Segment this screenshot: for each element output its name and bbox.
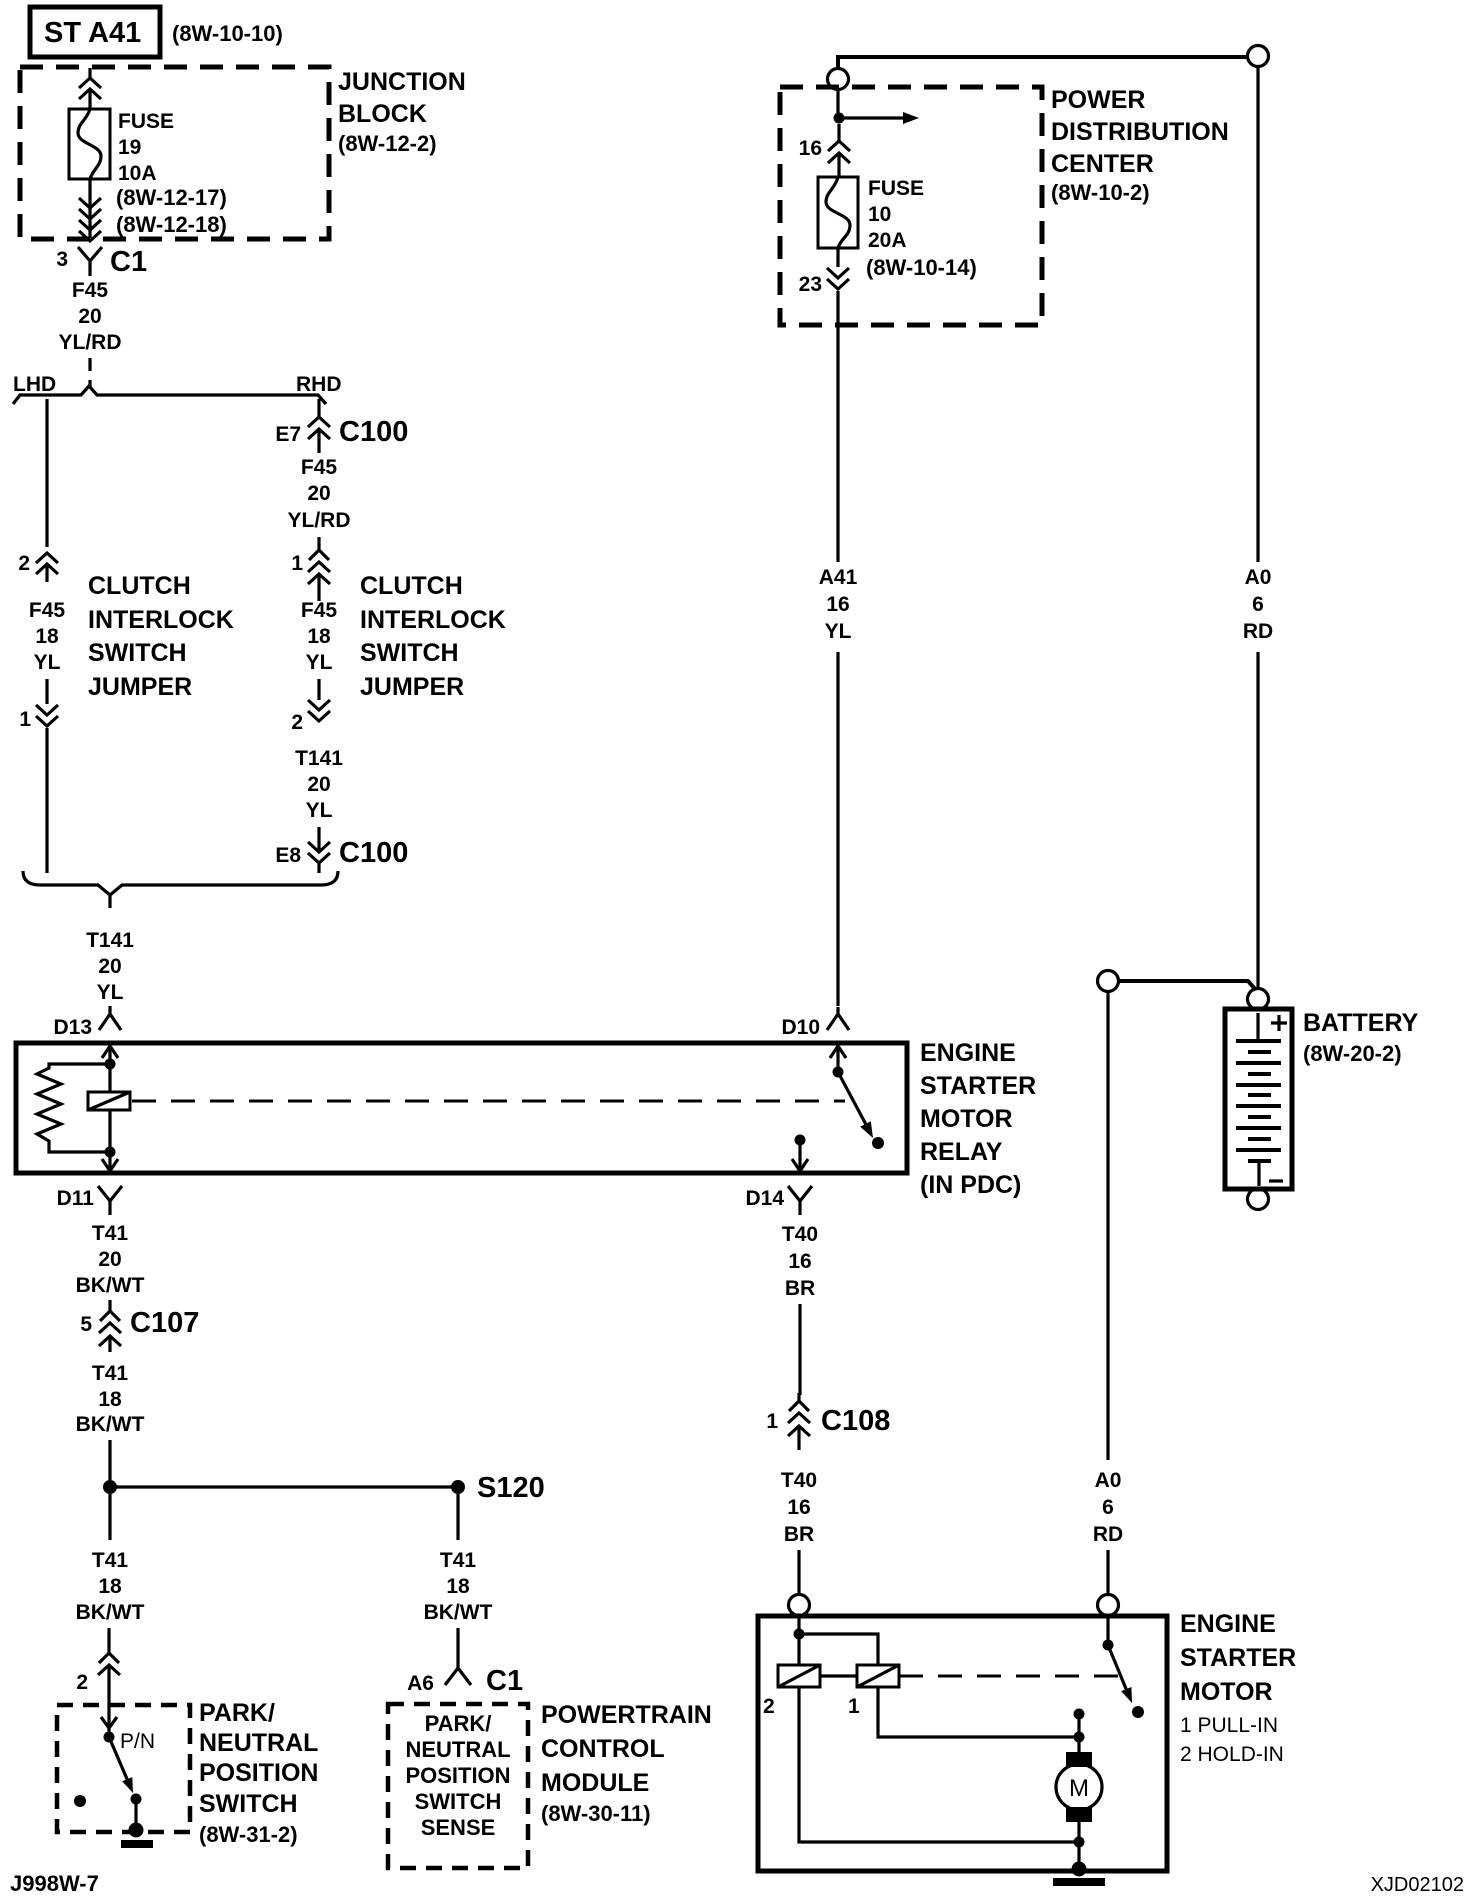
wire: LHD branch lower <box>45 728 48 873</box>
svg-text:POSITION: POSITION <box>199 1759 318 1787</box>
wire A41 (PDC to relay) <box>836 332 839 1006</box>
svg-text:(8W-10-14): (8W-10-14) <box>866 255 977 280</box>
coil 1 output wire <box>878 1687 1079 1737</box>
svg-text:YL: YL <box>97 981 124 1004</box>
relay pin D14 internal wire <box>792 1135 808 1172</box>
solenoid actuation dashed link <box>899 1675 1122 1678</box>
wire A0 (battery feed right) <box>1256 67 1259 988</box>
coil 2 return wire <box>799 1687 1079 1842</box>
starter hold-in feed wires <box>794 1616 879 1665</box>
svg-text:D10: D10 <box>781 1016 820 1039</box>
connector C100 pin E7 <box>275 407 408 453</box>
svg-text:T41: T41 <box>92 1362 129 1385</box>
connector pin 2 (PNP switch) <box>76 1628 120 1732</box>
PDC label <box>1051 86 1229 205</box>
starter ground <box>1053 1862 1105 1887</box>
svg-text:(8W-10-10): (8W-10-10) <box>172 21 283 46</box>
svg-text:2: 2 <box>18 552 30 575</box>
svg-text:RELAY: RELAY <box>920 1138 1003 1166</box>
svg-text:C108: C108 <box>821 1405 890 1437</box>
svg-text:T40: T40 <box>781 1469 817 1492</box>
svg-text:PARK/: PARK/ <box>425 1711 492 1736</box>
solenoid coil 2 (hold-in) <box>763 1665 820 1718</box>
clutch interlock switch jumper label (RHD) <box>360 572 506 701</box>
svg-text:SWITCH: SWITCH <box>199 1790 298 1818</box>
battery positive terminal circle (top) <box>1248 46 1269 67</box>
motor feed junctions <box>1074 1709 1085 1743</box>
svg-text:CENTER: CENTER <box>1051 150 1154 178</box>
svg-text:18: 18 <box>446 1575 470 1598</box>
svg-text:S120: S120 <box>477 1472 545 1504</box>
svg-text:16: 16 <box>799 137 822 160</box>
svg-text:NEUTRAL: NEUTRAL <box>199 1729 318 1757</box>
svg-text:SWITCH: SWITCH <box>415 1789 502 1814</box>
wire: top feed to battery <box>838 57 1247 68</box>
wire: splice to PNP switch <box>108 1494 111 1540</box>
svg-text:RHD: RHD <box>296 373 342 396</box>
svg-text:FUSE: FUSE <box>118 110 174 133</box>
wire label T40 16 BR (lower) <box>781 1469 817 1546</box>
svg-text:POWERTRAIN: POWERTRAIN <box>541 1701 712 1729</box>
svg-text:20: 20 <box>78 305 101 328</box>
svg-text:MOTOR: MOTOR <box>920 1105 1013 1133</box>
svg-text:E7: E7 <box>275 423 301 446</box>
option split LHD/RHD <box>13 373 342 404</box>
svg-text:BK/WT: BK/WT <box>76 1601 145 1624</box>
svg-text:C100: C100 <box>339 416 408 448</box>
svg-text:E8: E8 <box>275 844 301 867</box>
wire: RHD mid <box>317 679 320 700</box>
wire: splice to PCM <box>456 1494 459 1540</box>
svg-text:T141: T141 <box>86 929 134 952</box>
svg-text:C1: C1 <box>110 246 147 278</box>
svg-text:18: 18 <box>35 625 59 648</box>
battery negative post circle <box>1248 1189 1269 1210</box>
wire label A0 6 RD <box>1243 566 1273 643</box>
svg-text:STARTER: STARTER <box>1180 1644 1296 1672</box>
battery <box>1225 1009 1292 1189</box>
svg-text:1 PULL-IN: 1 PULL-IN <box>1180 1714 1278 1737</box>
svg-text:BLOCK: BLOCK <box>338 100 427 128</box>
svg-text:BK/WT: BK/WT <box>76 1413 145 1436</box>
svg-text:J998W-7: J998W-7 <box>10 1871 99 1896</box>
connector pin 1 (RHD jumper) <box>291 537 330 601</box>
junction block box <box>20 67 329 239</box>
svg-text:F45: F45 <box>72 279 109 302</box>
relay label <box>920 1039 1036 1199</box>
svg-text:SWITCH: SWITCH <box>360 639 459 667</box>
connector C107 pin 5 <box>80 1300 199 1352</box>
svg-text:3: 3 <box>56 248 68 271</box>
wire label A0 6 RD (lower) <box>1093 1469 1123 1546</box>
wire label A41 16 YL <box>819 566 858 643</box>
svg-text:20A: 20A <box>868 229 907 252</box>
svg-text:16: 16 <box>788 1250 811 1273</box>
svg-text:RD: RD <box>1243 620 1273 643</box>
svg-text:A6: A6 <box>407 1672 434 1695</box>
svg-text:STARTER: STARTER <box>920 1072 1036 1100</box>
svg-text:SWITCH: SWITCH <box>88 639 187 667</box>
PNP switch ground <box>121 1799 153 1848</box>
svg-text:10A: 10A <box>118 162 157 185</box>
svg-text:T141: T141 <box>295 747 343 770</box>
svg-text:CLUTCH: CLUTCH <box>88 572 191 600</box>
svg-text:F45: F45 <box>301 599 338 622</box>
svg-text:F45: F45 <box>301 456 338 479</box>
svg-text:CLUTCH: CLUTCH <box>360 572 463 600</box>
PNP switch sense label (inside PCM) <box>405 1711 510 1840</box>
svg-text:(8W-10-2): (8W-10-2) <box>1051 180 1150 205</box>
svg-text:YL: YL <box>34 651 61 674</box>
svg-text:JUMPER: JUMPER <box>88 673 192 701</box>
svg-text:1: 1 <box>848 1695 860 1718</box>
svg-text:BR: BR <box>784 1523 814 1546</box>
svg-text:18: 18 <box>307 625 331 648</box>
connector C1 pin 3 <box>56 246 147 278</box>
svg-text:RD: RD <box>1093 1523 1123 1546</box>
wire A0 6 RD to starter <box>1106 992 1109 1594</box>
svg-text:BR: BR <box>785 1277 815 1300</box>
svg-text:10: 10 <box>868 203 891 226</box>
clutch interlock switch jumper label (LHD) <box>88 572 234 701</box>
motor return junction <box>1074 1837 1085 1869</box>
svg-text:F45: F45 <box>29 599 66 622</box>
wire label T141 20 YL (RHD) <box>295 747 343 822</box>
relay coil <box>88 1092 130 1152</box>
svg-text:XJD02102: XJD02102 <box>1371 1874 1464 1896</box>
connector D10 <box>781 1007 849 1039</box>
wire label T41 20 BK/WT <box>76 1222 145 1297</box>
svg-text:2: 2 <box>763 1695 775 1718</box>
park/neutral position switch box <box>57 1705 190 1832</box>
wire: C108 to starter <box>797 1550 800 1594</box>
wire: LHD branch mid <box>45 679 48 704</box>
svg-text:D11: D11 <box>57 1187 95 1210</box>
starter motor M <box>1056 1737 1102 1842</box>
svg-text:ST A41: ST A41 <box>44 17 141 49</box>
svg-text:POSITION: POSITION <box>405 1763 510 1788</box>
svg-text:INTERLOCK: INTERLOCK <box>88 606 234 634</box>
svg-text:BATTERY: BATTERY <box>1303 1009 1419 1037</box>
connector: junction block feed (in-line arrows) <box>79 68 101 110</box>
PDC pin 16 connector <box>799 124 850 177</box>
svg-text:T40: T40 <box>782 1223 818 1246</box>
connector D13 <box>53 1006 121 1039</box>
fuse 19 <box>69 109 110 179</box>
svg-text:D14: D14 <box>745 1187 784 1210</box>
svg-text:ENGINE: ENGINE <box>1180 1610 1276 1638</box>
starter switch blade <box>1103 1616 1145 1718</box>
svg-text:1: 1 <box>766 1410 778 1433</box>
svg-text:T41: T41 <box>440 1549 477 1572</box>
fuse 10 <box>818 177 858 248</box>
coil link wire <box>820 1674 857 1677</box>
connector D14 <box>745 1186 812 1215</box>
wire: D14 to C108 <box>798 1304 801 1395</box>
connector C108 pin 1 <box>766 1393 890 1450</box>
svg-text:16: 16 <box>787 1496 810 1519</box>
wire label F45 20 YL/RD (RHD) <box>288 456 351 532</box>
svg-text:NEUTRAL: NEUTRAL <box>405 1737 510 1762</box>
option merge brace <box>23 871 338 908</box>
connector C100 pin E8 <box>275 827 408 873</box>
relay switch (D10 side) <box>830 1043 884 1149</box>
power distribution center box <box>780 87 1042 325</box>
splice S120 <box>103 1472 545 1504</box>
svg-text:YL/RD: YL/RD <box>59 331 122 354</box>
battery positive post circle <box>1248 989 1269 1010</box>
svg-text:CONTROL: CONTROL <box>541 1735 665 1763</box>
svg-text:MOTOR: MOTOR <box>1180 1678 1273 1706</box>
relay pin D11 internal wire <box>102 1147 118 1172</box>
reference (8W-10-10) <box>172 21 283 46</box>
svg-text:(8W-31-2): (8W-31-2) <box>199 1822 298 1847</box>
svg-text:(8W-12-18): (8W-12-18) <box>116 212 227 237</box>
svg-text:YL/RD: YL/RD <box>288 509 351 532</box>
starter terminal circle (battery feed) <box>1098 1595 1119 1616</box>
svg-text:P/N: P/N <box>120 1730 155 1753</box>
svg-text:18: 18 <box>98 1388 122 1411</box>
svg-text:T41: T41 <box>92 1222 129 1245</box>
svg-text:C100: C100 <box>339 837 408 869</box>
svg-text:2: 2 <box>291 711 303 734</box>
wire label F45 18 YL (RHD) <box>301 599 338 674</box>
relay pin D13 internal wire <box>102 1043 118 1092</box>
svg-text:PARK/: PARK/ <box>199 1699 275 1727</box>
wire: RHD drop <box>317 399 320 407</box>
svg-text:LHD: LHD <box>13 373 56 396</box>
svg-text:20: 20 <box>307 482 330 505</box>
drawing number XJD02102 <box>1371 1874 1464 1896</box>
svg-text:(8W-20-2): (8W-20-2) <box>1303 1041 1402 1066</box>
svg-text:ENGINE: ENGINE <box>920 1039 1016 1067</box>
wire: down to splice <box>108 1440 111 1480</box>
svg-text:5: 5 <box>80 1313 92 1336</box>
wire label F45 20 YL/RD <box>59 279 122 354</box>
svg-text:19: 19 <box>118 136 141 159</box>
svg-text:18: 18 <box>98 1575 122 1598</box>
svg-text:C107: C107 <box>130 1307 199 1339</box>
solenoid coil 1 (pull-in) <box>848 1665 899 1718</box>
svg-text:(8W-12-2): (8W-12-2) <box>338 131 437 156</box>
svg-text:BK/WT: BK/WT <box>424 1601 493 1624</box>
svg-text:M: M <box>1069 1775 1089 1802</box>
wire: LHD branch upper <box>45 399 48 547</box>
wire: dashed option segment <box>88 358 91 388</box>
wire label T141 20 YL <box>86 929 134 1004</box>
connector pin 1 (LHD jumper) <box>19 705 58 731</box>
powertrain control module box <box>388 1704 528 1868</box>
connector D11 <box>57 1186 122 1215</box>
svg-text:20: 20 <box>98 1248 121 1271</box>
svg-text:C1: C1 <box>486 1665 523 1697</box>
svg-text:DISTRIBUTION: DISTRIBUTION <box>1051 118 1229 146</box>
wire label T41 18 BK/WT <box>76 1362 145 1436</box>
svg-text:2 HOLD-IN: 2 HOLD-IN <box>1180 1743 1284 1766</box>
svg-text:YL: YL <box>825 620 852 643</box>
connector C1 pin A6 <box>407 1628 523 1697</box>
svg-text:20: 20 <box>307 773 330 796</box>
svg-text:6: 6 <box>1252 593 1264 616</box>
connector pin 2 (LHD jumper) <box>18 552 58 582</box>
svg-text:YL: YL <box>306 799 333 822</box>
page tag ST A41 <box>30 7 160 57</box>
battery label <box>1303 1009 1419 1066</box>
svg-text:23: 23 <box>799 273 822 296</box>
svg-text:A0: A0 <box>1095 1469 1122 1492</box>
svg-text:YL: YL <box>306 651 333 674</box>
svg-text:A41: A41 <box>819 566 858 589</box>
svg-text:(8W-30-11): (8W-30-11) <box>541 1801 651 1826</box>
svg-text:INTERLOCK: INTERLOCK <box>360 606 506 634</box>
wire label T41 18 BK/WT (right leg) <box>424 1549 493 1624</box>
svg-text:16: 16 <box>826 593 849 616</box>
starter terminal circle (solenoid) <box>789 1595 810 1616</box>
svg-text:1: 1 <box>19 708 31 731</box>
svg-text:A0: A0 <box>1245 566 1272 589</box>
relay actuation dashed link <box>132 1100 845 1103</box>
wire label F45 18 YL (LHD) <box>29 599 66 674</box>
engine starter motor relay box <box>16 1043 907 1173</box>
engine starter motor box <box>758 1616 1167 1871</box>
wire: junction to battery positive <box>1119 981 1256 990</box>
svg-text:JUMPER: JUMPER <box>360 673 464 701</box>
svg-text:SENSE: SENSE <box>421 1815 496 1840</box>
fuse 19 labels <box>116 110 227 237</box>
PNP switch label <box>199 1699 318 1847</box>
sheet number J998W-7 <box>10 1871 99 1896</box>
svg-text:POWER: POWER <box>1051 86 1145 114</box>
fuse 10 labels <box>866 177 977 280</box>
PDC pin 23 connector <box>799 248 849 332</box>
PCM label <box>541 1701 712 1826</box>
svg-text:(8W-12-17): (8W-12-17) <box>116 185 227 210</box>
svg-text:MODULE: MODULE <box>541 1769 649 1797</box>
svg-text:D13: D13 <box>53 1016 92 1039</box>
connector pin 2 (RHD jumper) <box>291 700 330 734</box>
starter feed junction circle <box>1098 971 1119 992</box>
wire label T40 16 BR <box>782 1223 818 1300</box>
connector arrows: fuse 19 output <box>79 179 101 241</box>
starter label <box>1180 1610 1296 1766</box>
svg-text:(IN PDC): (IN PDC) <box>920 1171 1021 1199</box>
svg-text:T41: T41 <box>92 1549 129 1572</box>
svg-text:JUNCTION: JUNCTION <box>338 68 466 96</box>
svg-text:6: 6 <box>1102 1496 1114 1519</box>
junction block label <box>338 68 466 156</box>
svg-text:2: 2 <box>76 1671 88 1694</box>
svg-text:FUSE: FUSE <box>868 177 924 200</box>
svg-text:20: 20 <box>98 955 121 978</box>
battery feed terminal circle (PDC) <box>828 69 849 90</box>
svg-text:BK/WT: BK/WT <box>76 1274 145 1297</box>
PNP switch contacts and blade <box>74 1730 155 1807</box>
svg-text:1: 1 <box>291 552 303 575</box>
PDC internal feed and tap arrow <box>834 90 920 124</box>
relay resistor <box>37 1064 110 1152</box>
wire label T41 18 BK/WT (left leg) <box>76 1549 145 1624</box>
